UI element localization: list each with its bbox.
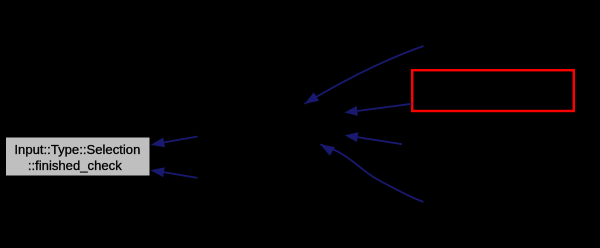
wire edge A: central caller node to finished_check (upper) — [151, 137, 198, 148]
wire edge D: red-box caller into central node — [344, 104, 411, 116]
svg-text:::finished_check: ::finished_check — [28, 158, 122, 173]
svg-text:Input::Type::Selection: Input::Type::Selection — [14, 142, 140, 157]
wire edge B: lower caller node to finished_check — [151, 167, 198, 178]
wire edge C: top-right caller curve into central node — [305, 46, 424, 104]
node Input::Type::Selection::finished_check (current node, grey) — [6, 137, 151, 176]
wire edge E: right caller into lower central node — [345, 132, 402, 144]
wire edge F: bottom-right caller curve into central node — [320, 144, 423, 202]
node (truncated caller, red outline) — [412, 70, 574, 111]
